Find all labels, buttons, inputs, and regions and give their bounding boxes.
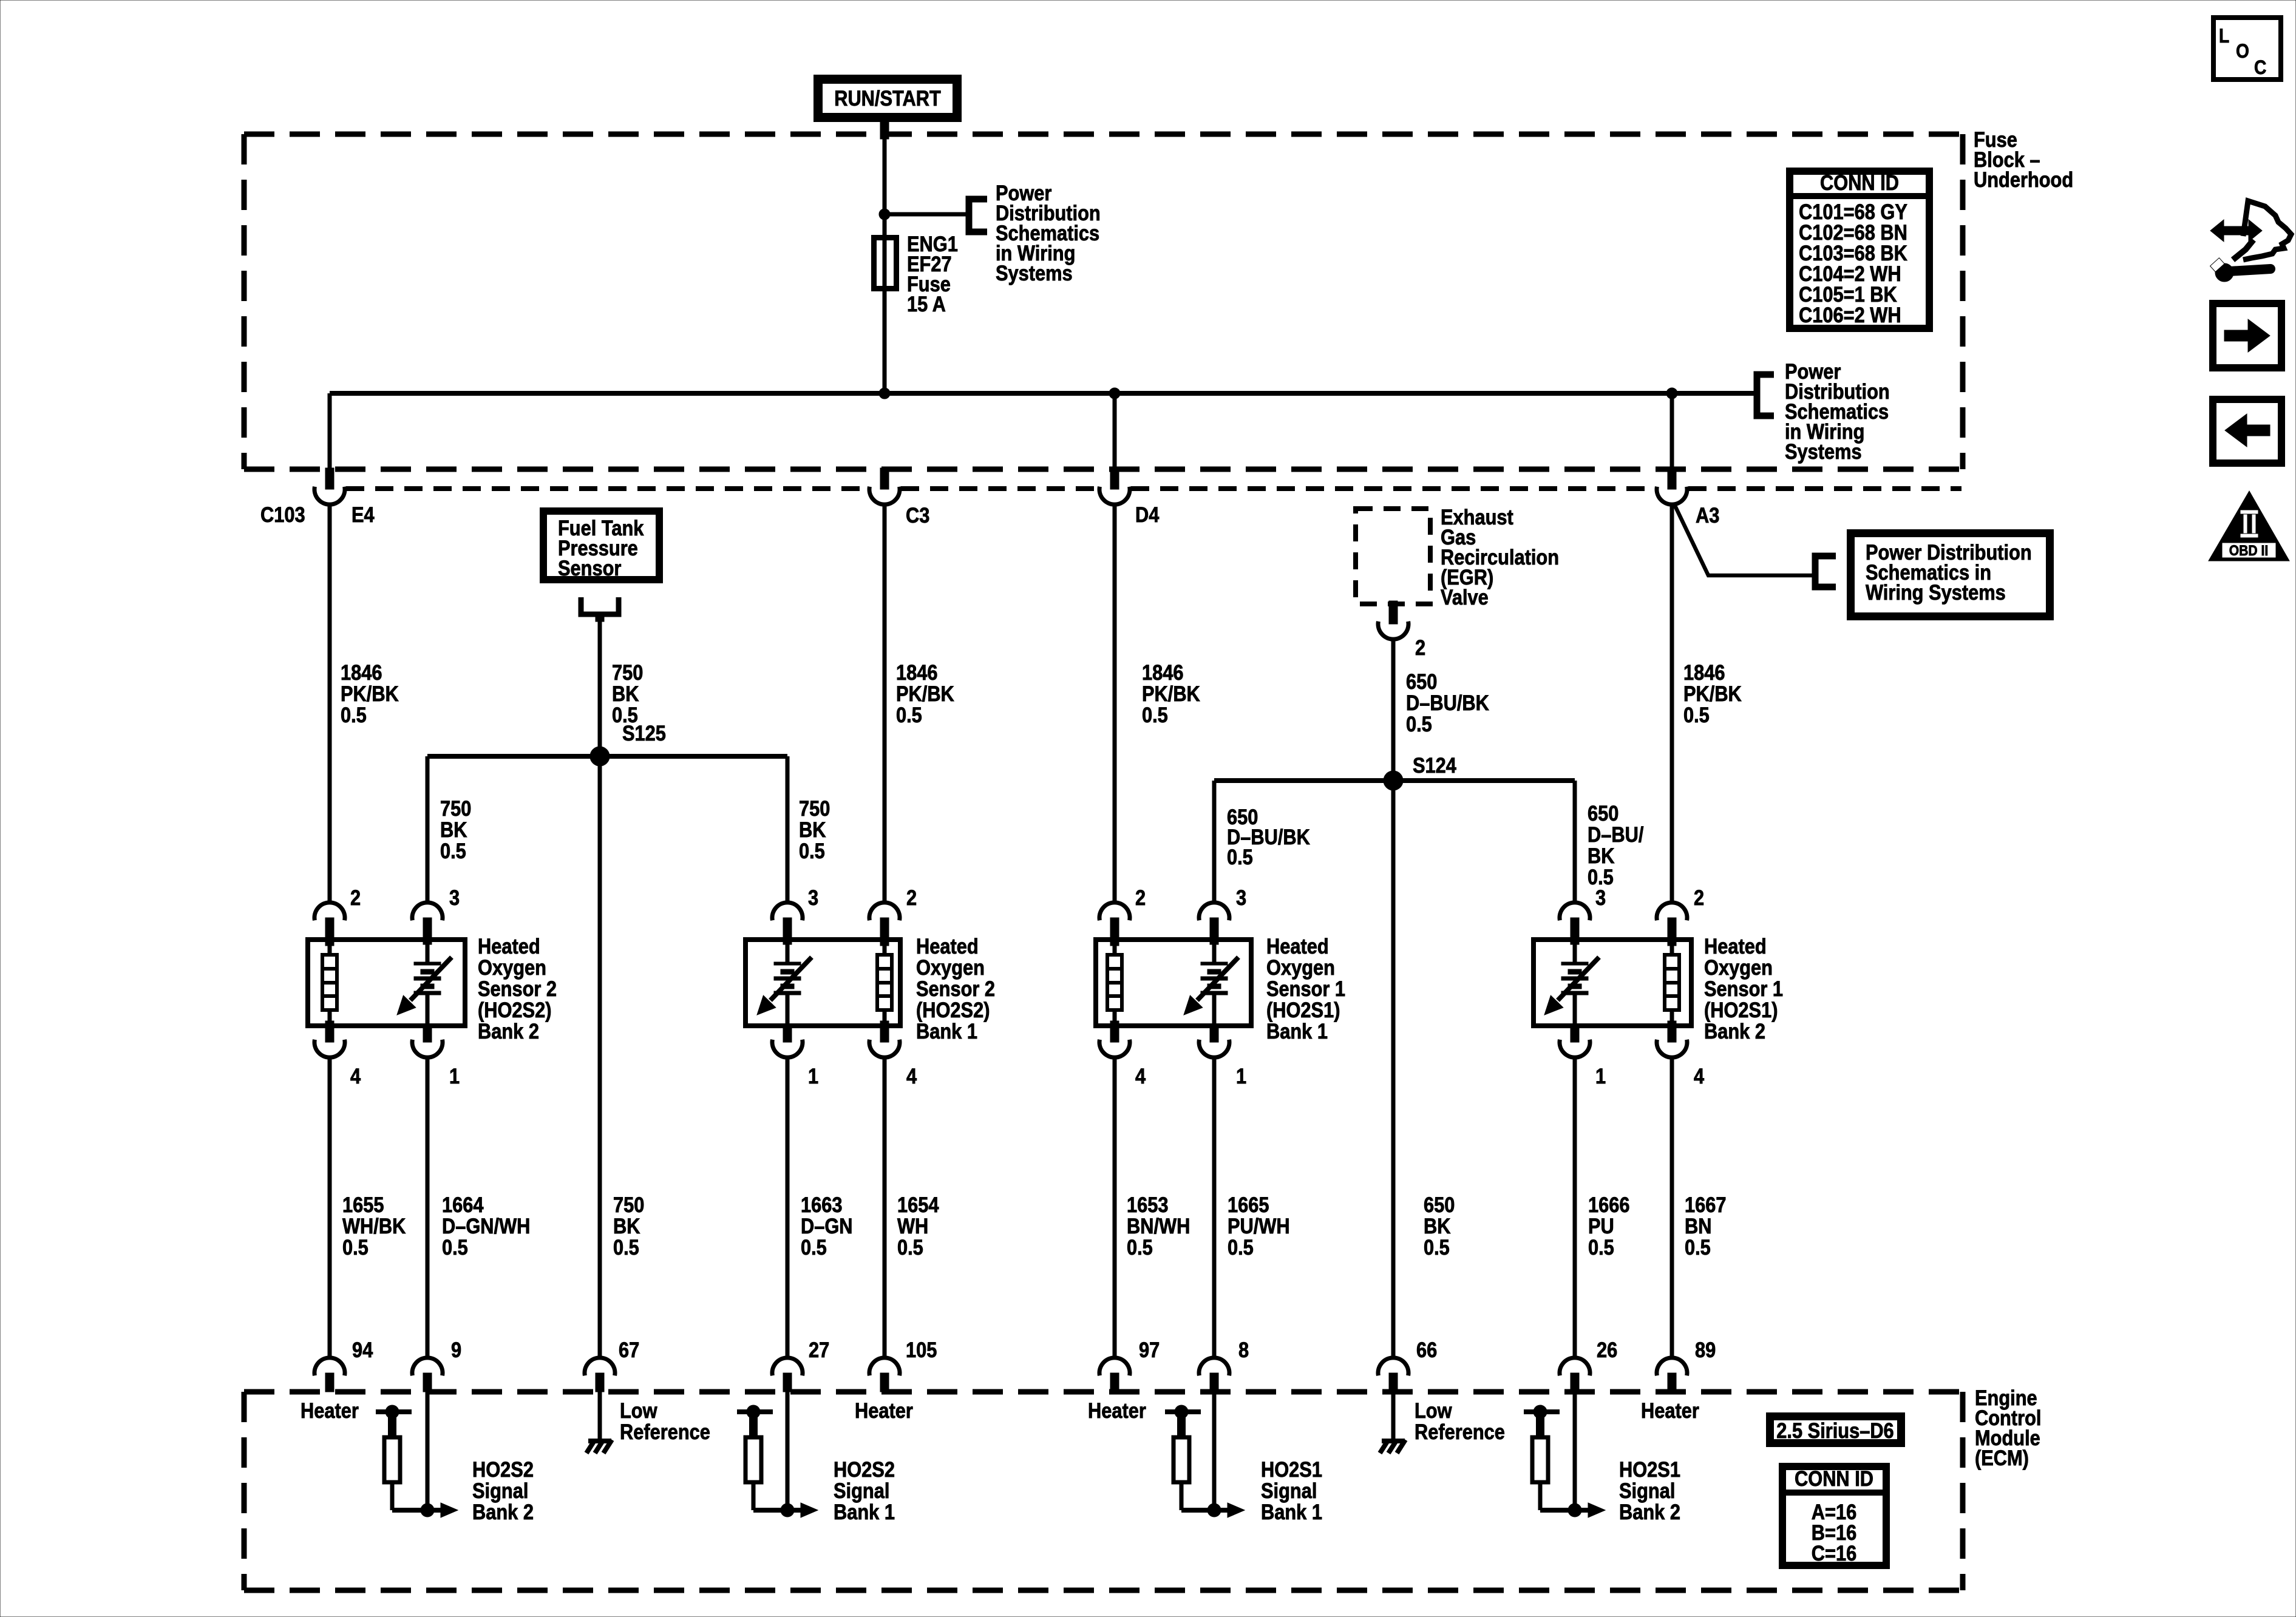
connector pins bottom HO2S box 4 [1560, 1028, 1687, 1057]
svg-text:Bank 2: Bank 2 [478, 1019, 539, 1043]
label wire 1653 BN/WH [1127, 1193, 1190, 1259]
wire stub from RUN/START into fuse block [880, 121, 889, 139]
svg-text:750: 750 [613, 1193, 644, 1216]
svg-text:Heated: Heated [1266, 934, 1329, 958]
box heated oxygen sensor 1 [308, 940, 465, 1026]
wire fuse to bus [883, 289, 887, 393]
svg-text:3: 3 [449, 886, 460, 909]
box heated oxygen sensor 4 [1533, 940, 1691, 1026]
svg-text:HO2S1: HO2S1 [1619, 1457, 1680, 1481]
svg-text:PK/BK: PK/BK [341, 682, 399, 705]
svg-text:97: 97 [1139, 1338, 1160, 1361]
heater element HO2S box 2 [877, 938, 892, 1028]
svg-text:Bank 1: Bank 1 [1266, 1019, 1328, 1043]
svg-text:750: 750 [799, 796, 830, 820]
svg-text:2: 2 [1694, 886, 1704, 909]
svg-text:0.5: 0.5 [897, 1235, 923, 1259]
junction dot bus at D4 [1109, 388, 1120, 399]
svg-text:BN: BN [1685, 1214, 1711, 1238]
connector ECM pin 9 [412, 1358, 443, 1392]
svg-text:C: C [2254, 57, 2266, 78]
label wire 1665 PU/WH [1228, 1193, 1290, 1259]
svg-text:Signal: Signal [472, 1479, 528, 1502]
resistor internal ECM near pin 2000 [1173, 1437, 1189, 1482]
connector pins top HO2S box 4 [1560, 903, 1687, 938]
svg-text:(HO2S2): (HO2S2) [916, 998, 990, 1022]
label wire 750 BK left branch [440, 796, 471, 863]
wire bus to A3 [1670, 393, 1674, 469]
svg-text:Signal: Signal [1619, 1479, 1675, 1502]
label wire 650 BK [1424, 1193, 1455, 1259]
svg-text:4: 4 [906, 1064, 917, 1088]
svg-text:RUN/START: RUN/START [834, 86, 941, 110]
label bottom pin numbers HO2S box 2 [808, 1064, 917, 1088]
wire sensor to ECM at x704 [426, 1057, 430, 1358]
ECM dashed border [244, 1392, 1963, 1590]
connector row C103 dashed line [346, 486, 868, 491]
svg-text:1846: 1846 [1683, 660, 1725, 684]
label wire 750 BK [613, 1193, 644, 1259]
svg-text:3: 3 [1595, 886, 1606, 909]
svg-text:2.5 Sirius–D6: 2.5 Sirius–D6 [1776, 1419, 1894, 1442]
label bottom pin numbers HO2S box 1 [350, 1064, 460, 1088]
svg-text:Bank 1: Bank 1 [1261, 1500, 1322, 1524]
svg-text:0.5: 0.5 [1127, 1235, 1153, 1259]
svg-text:650: 650 [1406, 670, 1437, 693]
svg-text:2: 2 [906, 886, 917, 909]
wire bus left corner down to E4 [328, 393, 332, 469]
svg-text:Signal: Signal [834, 1479, 889, 1502]
label wire 1846 PK/BK col E4 [341, 660, 399, 727]
signal arrow pin 704 [392, 1482, 458, 1517]
icon diagnostic wrench with double arrow [2210, 201, 2291, 282]
svg-text:750: 750 [612, 660, 643, 684]
connector pins top HO2S box 3 [1099, 903, 1229, 938]
svg-text:Heater: Heater [1088, 1398, 1146, 1422]
svg-text:0.5: 0.5 [442, 1235, 468, 1259]
svg-text:D–BU/BK: D–BU/BK [1406, 691, 1489, 714]
label Low Reference at x1021 [620, 1398, 710, 1443]
svg-text:Underhood: Underhood [1974, 168, 2073, 191]
wire bus to D4 [1113, 393, 1117, 469]
svg-text:0.5: 0.5 [1588, 1235, 1614, 1259]
svg-text:750: 750 [440, 796, 471, 820]
svg-text:Low: Low [620, 1398, 657, 1422]
wire S124 left branch [1212, 781, 1217, 903]
svg-text:2: 2 [1135, 886, 1146, 909]
svg-text:Bank 2: Bank 2 [1704, 1019, 1765, 1043]
svg-text:A3: A3 [1696, 503, 1719, 527]
wire A3 down to sensor [1670, 504, 1674, 903]
label Engine Control Module ECM [1975, 1386, 2041, 1470]
resistor internal ECM near pin 2594 [1532, 1437, 1548, 1482]
svg-text:8: 8 [1238, 1338, 1249, 1361]
svg-text:4: 4 [1694, 1064, 1705, 1088]
table CONN ID ECM [1782, 1466, 1886, 1565]
label Exhaust Gas Recirculation EGR Valve [1441, 505, 1559, 609]
svg-text:105: 105 [906, 1338, 937, 1361]
svg-text:BK: BK [440, 818, 467, 841]
svg-text:0.5: 0.5 [1142, 703, 1168, 727]
icon arrow left box [2213, 399, 2281, 463]
connector ECM pin 8 [1199, 1358, 1229, 1392]
label top pin numbers HO2S box 3 [1135, 886, 1246, 909]
label power distribution schematics upper [996, 181, 1101, 285]
box EGR valve dashed [1356, 509, 1430, 604]
svg-text:26: 26 [1597, 1338, 1617, 1361]
svg-text:Reference: Reference [620, 1420, 710, 1443]
label Fuse Block - Underhood [1974, 127, 2073, 191]
svg-text:E4: E4 [352, 503, 375, 526]
svg-text:C106=2 WH: C106=2 WH [1799, 303, 1901, 327]
resistor internal ECM near pin 704 [384, 1437, 400, 1482]
svg-text:1663: 1663 [801, 1193, 842, 1216]
svg-text:1846: 1846 [341, 660, 382, 684]
svg-text:0.5: 0.5 [1228, 1235, 1254, 1259]
bus wire in fuse block [330, 391, 1757, 396]
svg-text:Oxygen: Oxygen [916, 955, 985, 979]
svg-text:3: 3 [1236, 886, 1246, 909]
svg-text:650: 650 [1588, 801, 1618, 825]
svg-text:Heated: Heated [916, 934, 979, 958]
label Low Reference at x2330 [1415, 1398, 1505, 1443]
svg-text:9: 9 [451, 1338, 461, 1361]
wire C3 down to sensor [883, 504, 887, 903]
svg-text:HO2S2: HO2S2 [472, 1457, 534, 1481]
label name HO2S box 1 [478, 934, 557, 1043]
ground low reference at x2295 [1380, 1392, 1405, 1453]
svg-text:Sensor 2: Sensor 2 [916, 977, 995, 1000]
splice S125 dot [590, 747, 610, 766]
label name HO2S box 3 [1266, 934, 1345, 1043]
fuse ENG1 EF27 15A [874, 237, 897, 289]
connector ECM pin 67 [585, 1358, 615, 1392]
resistor internal ECM near pin 1297 [746, 1437, 761, 1482]
signal arrow pin 2000 [1181, 1482, 1245, 1517]
svg-text:4: 4 [1135, 1064, 1146, 1088]
connector pins bottom HO2S box 1 [314, 1028, 443, 1057]
icon LOC box [2213, 18, 2281, 80]
connector A3 of C103 [1657, 468, 1687, 504]
svg-text:3: 3 [808, 886, 818, 909]
label name HO2S box 4 [1704, 934, 1783, 1043]
svg-text:89: 89 [1695, 1338, 1716, 1361]
svg-text:Bank 2: Bank 2 [1619, 1500, 1680, 1524]
wire sensor to ECM at x1457 [883, 1057, 887, 1358]
label bottom pin numbers HO2S box 4 [1595, 1064, 1705, 1088]
wire sensor to ECM at x2000 [1212, 1057, 1217, 1358]
connector D4 of C103 [1099, 468, 1130, 504]
svg-text:HO2S2: HO2S2 [834, 1457, 895, 1481]
label wire 750 BK col FTP [612, 660, 643, 727]
svg-text:1: 1 [449, 1064, 460, 1088]
svg-text:Oxygen: Oxygen [1704, 955, 1773, 979]
box heated oxygen sensor 2 [746, 940, 900, 1026]
svg-text:0.5: 0.5 [801, 1235, 827, 1259]
inline connector under FTP sensor [581, 597, 619, 614]
svg-text:Heater: Heater [1641, 1398, 1699, 1422]
svg-text:1667: 1667 [1685, 1193, 1726, 1216]
label power distribution schematics right [1785, 359, 1890, 463]
junction dot above fuse [879, 209, 890, 220]
connector E4 of C103 [314, 468, 345, 504]
wire sensor to ECM at x1297 [786, 1057, 790, 1358]
connector ECM pin 89 [1657, 1358, 1687, 1392]
svg-text:Systems: Systems [1785, 439, 1862, 463]
svg-text:PK/BK: PK/BK [1142, 682, 1200, 705]
connector pins bottom HO2S box 3 [1099, 1028, 1229, 1057]
bias source segment pin 2000 [1165, 1405, 1201, 1437]
wire EGR to S124 [1391, 639, 1396, 781]
sensor element HO2S box 1 [397, 938, 452, 1027]
svg-text:0.5: 0.5 [342, 1235, 369, 1259]
svg-text:1846: 1846 [896, 660, 937, 684]
svg-text:2: 2 [350, 886, 361, 909]
label wire 1654 WH [897, 1193, 939, 1259]
svg-text:4: 4 [350, 1064, 361, 1088]
svg-text:BK: BK [799, 818, 826, 841]
table CONN ID fuse block [1790, 171, 1929, 328]
svg-text:Reference: Reference [1415, 1420, 1505, 1443]
svg-text:Valve: Valve [1441, 585, 1489, 609]
svg-text:Systems: Systems [996, 261, 1073, 285]
connector ECM pin 94 [314, 1358, 345, 1392]
label wire 1846 PK/BK col A3 [1683, 660, 1742, 727]
label wire 1664 D-GN/WH [442, 1193, 530, 1259]
svg-text:Heater: Heater [855, 1398, 913, 1422]
svg-text:BK: BK [612, 682, 639, 705]
svg-text:0.5: 0.5 [613, 1235, 639, 1259]
connector pins top HO2S box 2 [772, 903, 900, 938]
svg-text:BK: BK [1588, 844, 1615, 867]
svg-text:S124: S124 [1413, 753, 1457, 777]
connector ECM pin 105 [869, 1358, 900, 1392]
label wire 650 D-BU/BK left branch [1227, 805, 1310, 869]
connector C3 of C103 [869, 468, 900, 504]
svg-text:D–BU/: D–BU/ [1588, 822, 1643, 846]
label HO2S1 signal [1261, 1457, 1322, 1524]
bracket power distribution reference lower [1815, 556, 1836, 587]
svg-text:1654: 1654 [897, 1193, 939, 1216]
wire signal pin 1297 inside ECM [786, 1392, 790, 1510]
label top pin numbers HO2S box 4 [1595, 886, 1704, 909]
label wire 650 D-BU/BK EGR [1406, 670, 1489, 736]
svg-text:0.5: 0.5 [1227, 845, 1253, 869]
svg-text:1846: 1846 [1142, 660, 1183, 684]
wire sensor to ECM at x2594 [1573, 1057, 1577, 1358]
svg-text:C=16: C=16 [1812, 1541, 1856, 1565]
bracket power distribution reference upper [969, 199, 987, 232]
svg-text:PK/BK: PK/BK [896, 682, 954, 705]
wire signal pin 704 inside ECM [426, 1392, 430, 1510]
svg-text:WH: WH [897, 1214, 928, 1238]
svg-text:L: L [2219, 25, 2229, 47]
heater element HO2S box 4 [1665, 938, 1679, 1028]
svg-text:(HO2S2): (HO2S2) [478, 998, 551, 1022]
svg-text:650: 650 [1424, 1193, 1455, 1216]
junction dot bus at A3 [1666, 388, 1677, 399]
splice S124 wire [1214, 778, 1575, 783]
signal arrow pin 2594 [1540, 1482, 1605, 1517]
label wire 1663 D-GN [801, 1193, 853, 1259]
ground low reference at x988 [586, 1392, 612, 1453]
svg-text:(ECM): (ECM) [1975, 1446, 2029, 1470]
connector ECM pin 27 [772, 1358, 803, 1392]
wire E4 down to sensor [328, 504, 332, 903]
svg-text:66: 66 [1416, 1338, 1437, 1361]
label bottom pin numbers HO2S box 3 [1135, 1064, 1246, 1088]
power source box RUN/START [818, 80, 957, 118]
icon arrow right box [2213, 303, 2281, 368]
svg-text:PU/WH: PU/WH [1228, 1214, 1290, 1238]
svg-text:1665: 1665 [1228, 1193, 1269, 1216]
wire RUN/START to fuse [883, 137, 887, 237]
svg-text:0.5: 0.5 [1406, 712, 1432, 736]
svg-text:CONN ID: CONN ID [1795, 1466, 1873, 1490]
svg-text:(HO2S1): (HO2S1) [1704, 998, 1778, 1022]
svg-text:94: 94 [352, 1338, 373, 1361]
svg-text:0.5: 0.5 [1683, 703, 1710, 727]
svg-text:0.5: 0.5 [341, 703, 367, 727]
wire S125 left branch [426, 756, 430, 903]
connector pins bottom HO2S box 2 [772, 1028, 900, 1057]
svg-text:67: 67 [619, 1338, 639, 1361]
svg-text:1655: 1655 [342, 1193, 384, 1216]
connector ECM pin 26 [1560, 1358, 1590, 1392]
label top pin numbers HO2S box 1 [350, 886, 460, 909]
svg-text:BK: BK [1424, 1214, 1451, 1238]
svg-text:Bank 1: Bank 1 [916, 1019, 977, 1043]
wire signal pin 2594 inside ECM [1573, 1392, 1577, 1510]
svg-text:D–GN: D–GN [801, 1214, 853, 1238]
label fuse ENG1 EF27 [907, 232, 958, 316]
connector ECM pin 66 [1378, 1358, 1408, 1392]
connector EGR pin 2 [1378, 601, 1408, 639]
svg-text:1664: 1664 [442, 1193, 484, 1216]
svg-text:Low: Low [1415, 1398, 1452, 1422]
label wire 1667 BN [1685, 1193, 1726, 1259]
svg-text:PK/BK: PK/BK [1683, 682, 1742, 705]
svg-text:2: 2 [1415, 636, 1425, 659]
svg-text:Sensor: Sensor [558, 556, 622, 580]
svg-text:Heated: Heated [1704, 934, 1767, 958]
label wire 1666 PU [1588, 1193, 1629, 1259]
svg-text:D4: D4 [1135, 503, 1160, 526]
heater element HO2S box 3 [1107, 938, 1122, 1028]
sensor element HO2S box 2 [757, 938, 812, 1027]
svg-text:0.5: 0.5 [1685, 1235, 1711, 1259]
svg-text:PU: PU [1588, 1214, 1614, 1238]
label top pin numbers HO2S box 2 [808, 886, 917, 909]
bias source segment pin 704 [376, 1405, 412, 1437]
svg-text:S125: S125 [622, 721, 666, 745]
svg-text:1: 1 [1595, 1064, 1606, 1088]
wire FTP sensor to S125 [598, 622, 602, 756]
svg-text:WH/BK: WH/BK [342, 1214, 406, 1238]
svg-text:1653: 1653 [1127, 1193, 1168, 1216]
box power distribution schematics reference [1851, 534, 2050, 617]
wire S125 right branch [786, 756, 790, 903]
bracket power distribution reference right [1757, 375, 1774, 416]
bias source segment pin 2594 [1524, 1405, 1560, 1437]
label HO2S2 signal [472, 1457, 534, 1524]
svg-text:D–GN/WH: D–GN/WH [442, 1214, 530, 1238]
splice S125 wire [427, 754, 787, 759]
sensor element HO2S box 4 [1544, 938, 1599, 1027]
svg-text:Wiring Systems: Wiring Systems [1866, 580, 2006, 604]
svg-text:Bank 1: Bank 1 [834, 1500, 895, 1524]
junction dot bus at C3 [879, 388, 890, 399]
heater element HO2S box 1 [322, 938, 337, 1028]
wire S124 down to ECM 66 [1391, 781, 1396, 1358]
label wire 650 D-BU/ BK right branch [1588, 801, 1643, 889]
svg-text:Oxygen: Oxygen [478, 955, 546, 979]
svg-text:1: 1 [808, 1064, 818, 1088]
svg-text:HO2S1: HO2S1 [1261, 1457, 1322, 1481]
svg-text:Oxygen: Oxygen [1266, 955, 1335, 979]
svg-text:Bank 2: Bank 2 [472, 1500, 534, 1524]
wire sensor to ECM at x1836 [1113, 1057, 1117, 1358]
fuse block dashed border [244, 134, 1963, 469]
wire stub FTP connector [596, 614, 604, 622]
bias source segment pin 1297 [737, 1405, 773, 1437]
wire S125 down to ECM 67 [598, 756, 602, 1358]
label wire 750 BK right branch [799, 796, 830, 863]
wire sensor to ECM at x543 [328, 1057, 332, 1358]
wire sensor to ECM at x2754 [1670, 1057, 1674, 1358]
svg-text:0.5: 0.5 [440, 839, 466, 863]
connector pins top HO2S box 1 [314, 903, 443, 938]
label wire 1846 PK/BK col C3 [896, 660, 954, 727]
svg-text:Signal: Signal [1261, 1479, 1317, 1502]
label wire 1846 PK/BK col D4 [1142, 660, 1200, 727]
svg-text:15 A: 15 A [907, 292, 946, 316]
label wire 1655 WH/BK [342, 1193, 406, 1259]
svg-text:BK: BK [613, 1214, 640, 1238]
label HO2S2 signal [834, 1457, 895, 1524]
svg-text:CONN ID: CONN ID [1820, 171, 1899, 194]
svg-text:(HO2S1): (HO2S1) [1266, 998, 1340, 1022]
svg-text:BN/WH: BN/WH [1127, 1214, 1190, 1238]
wire S124 right branch [1573, 781, 1577, 903]
box Fuel Tank Pressure Sensor [543, 511, 659, 580]
label name HO2S box 2 [916, 934, 995, 1043]
box 2.5 Sirius-D6 [1770, 1417, 1901, 1443]
svg-text:1666: 1666 [1588, 1193, 1629, 1216]
label HO2S1 signal [1619, 1457, 1680, 1524]
svg-text:Heater: Heater [301, 1398, 359, 1422]
svg-text:0.5: 0.5 [896, 703, 922, 727]
connector ECM pin 97 [1099, 1358, 1130, 1392]
wire D4 down to sensor [1113, 504, 1117, 903]
svg-text:27: 27 [809, 1338, 829, 1361]
svg-text:Sensor 1: Sensor 1 [1704, 977, 1783, 1000]
wire A3 diagonal to reference [1674, 503, 1814, 575]
sensor element HO2S box 3 [1184, 938, 1238, 1027]
box heated oxygen sensor 3 [1096, 940, 1251, 1026]
svg-text:Heated: Heated [478, 934, 540, 958]
signal arrow pin 1297 [753, 1482, 818, 1517]
svg-text:O: O [2236, 41, 2249, 62]
icon OBD II triangle [2209, 491, 2289, 561]
svg-text:Sensor 2: Sensor 2 [478, 977, 557, 1000]
svg-text:0.5: 0.5 [1424, 1235, 1450, 1259]
svg-text:Sensor 1: Sensor 1 [1266, 977, 1345, 1000]
svg-text:0.5: 0.5 [799, 839, 825, 863]
wire signal pin 2000 inside ECM [1212, 1392, 1217, 1510]
svg-text:C3: C3 [906, 503, 929, 527]
wire to power distribution reference [885, 212, 969, 217]
